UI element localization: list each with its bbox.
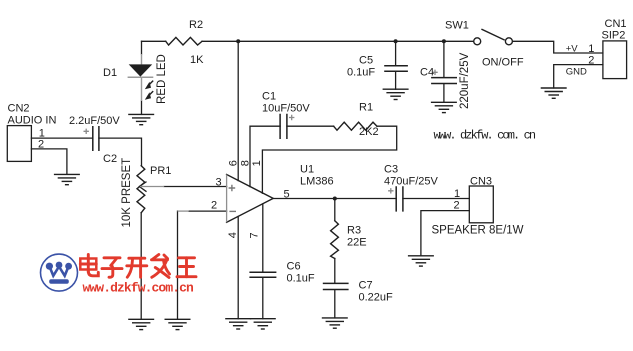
- svg-text:SW1: SW1: [445, 20, 469, 32]
- svg-text:C3: C3: [384, 163, 398, 175]
- svg-text:5: 5: [284, 189, 290, 201]
- svg-text:U1: U1: [300, 164, 314, 176]
- svg-text:CN1: CN1: [605, 18, 627, 30]
- svg-text:C7: C7: [359, 280, 373, 292]
- svg-text:2: 2: [38, 138, 44, 150]
- svg-text:220uF/25V: 220uF/25V: [459, 52, 471, 109]
- svg-text:LM386: LM386: [300, 176, 334, 188]
- svg-text:0.22uF: 0.22uF: [359, 291, 394, 303]
- svg-text:CN2: CN2: [8, 103, 30, 115]
- svg-text:CN3: CN3: [470, 176, 492, 188]
- svg-text:8: 8: [240, 160, 252, 166]
- svg-text:1: 1: [588, 43, 594, 55]
- svg-text:7: 7: [249, 232, 261, 238]
- svg-text:ON/OFF: ON/OFF: [482, 56, 524, 68]
- svg-text:4: 4: [227, 232, 239, 238]
- svg-text:C2: C2: [103, 153, 117, 165]
- svg-text:R3: R3: [347, 224, 361, 236]
- svg-text:2K2: 2K2: [359, 126, 379, 138]
- svg-text:1: 1: [251, 160, 263, 166]
- svg-text:R1: R1: [359, 102, 373, 114]
- svg-text:C6: C6: [287, 261, 301, 273]
- svg-text:R2: R2: [189, 19, 203, 31]
- svg-text:C5: C5: [359, 55, 373, 67]
- svg-text:www.dzkfw.com.cn: www.dzkfw.com.cn: [83, 281, 195, 296]
- svg-text:10K PRESET: 10K PRESET: [121, 158, 133, 228]
- svg-text:6: 6: [227, 160, 239, 166]
- svg-text:PR1: PR1: [150, 165, 171, 177]
- svg-text:1K: 1K: [190, 54, 204, 66]
- svg-text:AUDIO IN: AUDIO IN: [8, 115, 57, 127]
- svg-text:1: 1: [454, 188, 460, 200]
- svg-text:SIP2: SIP2: [602, 30, 626, 42]
- svg-text:C1: C1: [262, 91, 276, 103]
- svg-text:www. dzkfw. com. cn: www. dzkfw. com. cn: [434, 128, 536, 142]
- svg-text:+V: +V: [566, 44, 579, 55]
- svg-text:0.1uF: 0.1uF: [347, 67, 375, 79]
- svg-text:2.2uF/50V: 2.2uF/50V: [69, 115, 120, 127]
- svg-text:0.1uF: 0.1uF: [287, 273, 315, 285]
- svg-text:22E: 22E: [347, 236, 367, 248]
- svg-text:470uF/25V: 470uF/25V: [384, 175, 438, 187]
- svg-text:D1: D1: [103, 67, 117, 79]
- svg-text:GND: GND: [566, 67, 587, 78]
- svg-text:C4: C4: [420, 67, 434, 79]
- svg-text:10uF/50V: 10uF/50V: [262, 102, 310, 114]
- svg-text:2: 2: [454, 199, 460, 211]
- svg-text:2: 2: [588, 54, 594, 66]
- svg-text:3: 3: [216, 176, 222, 188]
- svg-text:2: 2: [211, 199, 217, 211]
- svg-text:SPEAKER 8E/1W: SPEAKER 8E/1W: [432, 224, 524, 236]
- svg-text:RED LED: RED LED: [156, 54, 168, 104]
